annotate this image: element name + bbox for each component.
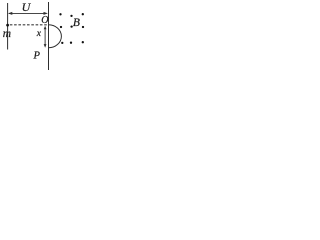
particle dot m <box>6 24 9 27</box>
U dimension line <box>9 12 47 14</box>
field dot r3c2 <box>70 42 72 44</box>
svg-text:B: B <box>73 17 80 29</box>
right plate <box>48 2 50 70</box>
svg-text:U: U <box>22 0 32 14</box>
field dot r2c1 <box>60 26 62 28</box>
x dimension line <box>44 28 46 46</box>
x bottom arrowhead <box>44 44 47 48</box>
field dot r1c3 <box>82 13 84 15</box>
semicircular path <box>49 25 62 48</box>
field dot r2c3 <box>82 26 84 28</box>
field dot r3c3 <box>82 41 84 43</box>
field dot r1c1 <box>59 13 61 15</box>
field dot r1c2 <box>70 15 72 17</box>
field dot r2c2 <box>70 25 72 27</box>
U left arrowhead <box>8 12 12 15</box>
x top arrowhead <box>44 26 47 30</box>
left plate <box>7 3 9 50</box>
field dot r3c1 <box>61 42 63 44</box>
svg-text:O: O <box>41 15 48 26</box>
svg-text:x: x <box>36 29 42 39</box>
U right arrowhead <box>44 12 48 15</box>
svg-text:m: m <box>3 28 11 40</box>
dashed beam line <box>10 24 48 26</box>
svg-text:P: P <box>33 50 41 61</box>
